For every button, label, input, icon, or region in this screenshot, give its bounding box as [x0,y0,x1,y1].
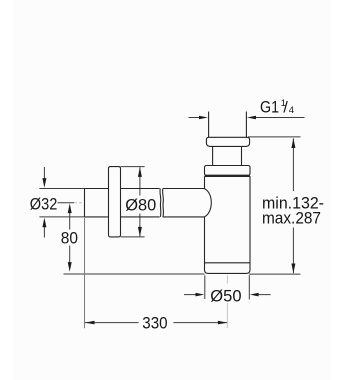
svg-text:Ø32: Ø32 [30,196,58,214]
svg-text:max.287: max.287 [262,210,321,228]
svg-text:/: / [283,100,288,117]
svg-text:330: 330 [142,315,167,333]
svg-text:80: 80 [61,230,78,248]
svg-text:G1: G1 [260,99,279,117]
svg-text:4: 4 [289,105,294,116]
svg-text:Ø80: Ø80 [125,197,156,215]
svg-text:Ø50: Ø50 [210,288,241,306]
